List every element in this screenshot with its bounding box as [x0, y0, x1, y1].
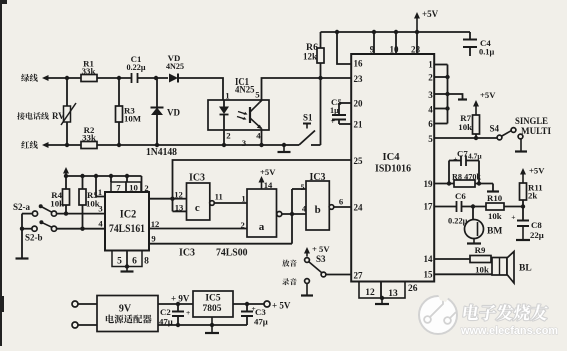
ground S4 multi	[520, 139, 522, 152]
power +5V arrow top	[416, 16, 418, 32]
svg-text:21: 21	[354, 120, 364, 130]
svg-text:+: +	[186, 308, 190, 317]
resistor R11 2k	[520, 183, 527, 200]
power +5V top rail	[321, 31, 471, 33]
wire IC3a out feedback	[282, 213, 306, 215]
svg-text:C4: C4	[480, 38, 491, 48]
pin 7 10 boxes IC2 top	[110, 176, 112, 182]
svg-text:S1: S1	[303, 113, 313, 123]
svg-text:+ 5V: + 5V	[312, 244, 330, 254]
svg-text:2: 2	[428, 73, 433, 83]
svg-text:10k: 10k	[475, 265, 489, 275]
pin 5 6 boxes IC2 bottom	[112, 251, 127, 267]
svg-text:10k: 10k	[458, 122, 472, 132]
svg-text:+: +	[511, 213, 515, 222]
svg-text:8: 8	[144, 257, 149, 267]
svg-text:4: 4	[428, 105, 433, 115]
resistor R8 470k	[454, 180, 475, 187]
svg-text:25: 25	[354, 156, 364, 166]
svg-text:6: 6	[428, 119, 433, 129]
gate IC3a	[247, 189, 277, 237]
wire IC3c out to IC3a in1	[214, 202, 247, 204]
svg-text:+5V: +5V	[529, 166, 545, 176]
ground 7805	[211, 317, 213, 333]
svg-text:1: 1	[241, 194, 245, 204]
svg-text:S2-a: S2-a	[13, 202, 31, 212]
svg-text:22μ: 22μ	[530, 230, 544, 240]
svg-text:R10: R10	[487, 193, 503, 203]
wire bottom power rail	[158, 324, 247, 326]
wire red line arrow	[45, 144, 81, 146]
watermark text dianzifashaoyou	[463, 304, 480, 320]
svg-text:2: 2	[226, 131, 231, 141]
capacitor C7 4.7u	[448, 161, 450, 184]
svg-text:MULTI: MULTI	[521, 127, 551, 137]
resistor R3 10M	[118, 78, 120, 106]
svg-text:13: 13	[175, 203, 184, 213]
svg-text:14: 14	[264, 180, 273, 190]
wire IC4 pin25 to IC3c inputs	[173, 160, 352, 211]
svg-text:5: 5	[300, 182, 304, 192]
resistor R7 10k	[475, 134, 477, 138]
svg-text:C2: C2	[160, 307, 171, 317]
wire opto pin4	[261, 129, 263, 146]
svg-text:1: 1	[225, 91, 229, 101]
speaker BL	[492, 258, 507, 276]
svg-text:0.1μ: 0.1μ	[479, 48, 494, 57]
svg-text:S3: S3	[316, 254, 326, 264]
power +5V R11	[522, 172, 524, 183]
svg-text:12: 12	[365, 288, 375, 298]
wire pin17 row	[434, 206, 456, 208]
svg-text:BL: BL	[519, 264, 532, 274]
capacitor C4 0.1u	[469, 32, 471, 39]
power +5V IC3a pin14	[261, 180, 263, 189]
svg-text:27: 27	[354, 271, 364, 281]
svg-text:C7: C7	[457, 149, 468, 159]
wire rail to IC2 pin1	[96, 176, 105, 197]
wire pin15 row	[434, 273, 492, 275]
power adapter box 9V	[97, 296, 158, 332]
capacitor C8 22u	[522, 207, 524, 221]
wire top rail R1-C1	[97, 77, 131, 79]
svg-text:16: 16	[354, 59, 364, 69]
wire C1 to diode	[138, 77, 169, 79]
svg-text:c: c	[195, 202, 200, 214]
svg-text:9: 9	[151, 234, 155, 244]
IC U4 ISD1016	[351, 54, 434, 282]
svg-text:R9: R9	[475, 245, 486, 255]
svg-text:9V: 9V	[119, 304, 132, 315]
svg-text:19: 19	[424, 179, 434, 189]
svg-text:IC2: IC2	[120, 207, 137, 221]
ground S3 record contact	[305, 279, 310, 284]
svg-text:26: 26	[408, 284, 418, 294]
svg-text:www.elecfans.com: www.elecfans.com	[460, 325, 558, 337]
svg-text:+5V: +5V	[422, 9, 439, 19]
svg-text:1μ: 1μ	[330, 106, 339, 115]
svg-text:74LS00: 74LS00	[216, 246, 248, 258]
svg-text:12k: 12k	[303, 52, 317, 62]
svg-text:6: 6	[339, 197, 344, 207]
resistor R9 10k	[470, 256, 491, 263]
ground R8 right	[492, 184, 494, 192]
svg-text:10M: 10M	[124, 114, 142, 124]
svg-text:10k: 10k	[488, 211, 502, 221]
power +5V rail IC2	[66, 175, 142, 177]
resistor R10 10k	[486, 203, 504, 210]
svg-text:24: 24	[354, 203, 364, 213]
svg-text:9: 9	[370, 45, 375, 55]
svg-text:C8: C8	[531, 220, 542, 230]
pin 12 13 boxes IC4 bottom	[359, 282, 381, 299]
wire opto pin2	[223, 130, 225, 145]
microphone BM	[472, 207, 474, 220]
scan edge line left	[0, 0, 2, 346]
varistor RV	[17, 112, 25, 120]
svg-text:13: 13	[388, 289, 398, 299]
wire pin19 row	[434, 183, 454, 185]
svg-text:11: 11	[215, 192, 223, 202]
wire 7805 out	[233, 303, 264, 305]
svg-text:20: 20	[354, 99, 364, 109]
wire diode to opto pin1	[178, 78, 223, 100]
svg-text:4: 4	[302, 204, 307, 214]
wire IC2 pin to IC3c junction	[149, 198, 173, 200]
wire S3 to IC4 pin27	[326, 274, 351, 276]
terminal +5V out	[264, 301, 270, 307]
IC U5 7805	[193, 291, 233, 317]
svg-text:3: 3	[98, 204, 102, 214]
svg-text:4N25: 4N25	[235, 86, 255, 96]
svg-text:1: 1	[98, 187, 102, 197]
svg-text:14: 14	[424, 254, 434, 264]
IC U2 74LS161	[105, 192, 149, 251]
wire green line arrow	[45, 77, 81, 79]
wire rail to pin10	[395, 32, 397, 54]
svg-text:VD: VD	[167, 108, 180, 118]
svg-text:C3: C3	[255, 307, 266, 317]
svg-text:+5V: +5V	[260, 167, 276, 177]
wire opto pin5 to IC4 pin23	[260, 78, 352, 103]
svg-text:+5V: +5V	[480, 90, 496, 100]
svg-text:6: 6	[132, 257, 137, 267]
svg-text:IC5: IC5	[205, 294, 221, 304]
wire rail to pin9	[373, 32, 375, 54]
svg-text:5: 5	[117, 257, 122, 267]
wire rail to IC2 pin2	[141, 176, 143, 192]
wire pin5 row	[434, 137, 497, 139]
svg-text:10: 10	[390, 45, 400, 55]
svg-text:a: a	[259, 221, 265, 233]
svg-text:0.22μ: 0.22μ	[448, 217, 468, 226]
svg-text:IC3: IC3	[179, 246, 195, 258]
ground IC2 bottom	[125, 264, 129, 268]
svg-text:C6: C6	[455, 191, 466, 201]
wire pin14 row	[434, 258, 470, 260]
svg-text:+ 5V: + 5V	[272, 301, 291, 311]
svg-text:4.7μ: 4.7μ	[468, 152, 482, 161]
svg-text:+ 9V: + 9V	[171, 294, 190, 304]
svg-text:BM: BM	[487, 227, 502, 237]
wire IC3b out to IC4 pin24	[334, 206, 351, 208]
svg-text:7805: 7805	[203, 304, 222, 314]
svg-text:4N25: 4N25	[166, 61, 185, 71]
svg-text:4: 4	[256, 131, 261, 141]
svg-text:12: 12	[174, 190, 183, 200]
svg-text:47μ: 47μ	[254, 317, 268, 327]
wire bottom rail	[97, 144, 284, 146]
svg-text:1N4148: 1N4148	[146, 147, 177, 158]
ground IC4 bottom	[380, 296, 384, 300]
svg-text:17: 17	[424, 202, 434, 212]
svg-text:S4: S4	[489, 124, 499, 134]
svg-text:R8 470k: R8 470k	[452, 172, 481, 182]
svg-text:15: 15	[424, 270, 434, 280]
node green-line	[21, 74, 29, 82]
svg-text:S2-b: S2-b	[25, 233, 43, 243]
svg-text:3: 3	[242, 138, 247, 148]
wire adapter to 7805	[158, 303, 193, 305]
wire S1 up to node	[320, 78, 322, 145]
svg-text:b: b	[315, 204, 321, 216]
svg-text:4: 4	[98, 219, 103, 229]
svg-text:5: 5	[428, 134, 433, 144]
wire IC2 pin12 to IC3a in2	[149, 228, 247, 230]
svg-text:1: 1	[428, 60, 433, 70]
svg-text:12: 12	[151, 219, 160, 229]
node red-line	[21, 141, 29, 149]
watermark logo elecfans	[419, 296, 457, 334]
svg-text:IC4: IC4	[383, 152, 401, 163]
svg-text:2k: 2k	[528, 191, 537, 201]
capacitor C3 47u	[246, 304, 248, 311]
svg-text:28: 28	[411, 45, 421, 55]
svg-text:IC3: IC3	[189, 173, 205, 184]
ground below opto	[282, 143, 286, 147]
svg-text:0.22μ: 0.22μ	[127, 63, 146, 72]
svg-text:3: 3	[428, 90, 433, 100]
svg-text:ISD1016: ISD1016	[375, 164, 411, 175]
terminal input circles	[72, 301, 78, 307]
svg-text:74LS161: 74LS161	[109, 223, 145, 235]
capacitor C6 0.22u	[456, 201, 458, 212]
diode VD 1N4148	[156, 78, 158, 107]
svg-text:+: +	[331, 117, 336, 126]
wire pins 1-6 bus	[434, 64, 447, 66]
ground pins bus	[448, 94, 463, 99]
svg-text:5: 5	[255, 90, 260, 100]
wire S2 common to ground	[21, 214, 23, 258]
wire rail to IC4 pin16	[337, 32, 351, 64]
svg-text:23: 23	[354, 74, 364, 84]
svg-text:SINGLE: SINGLE	[515, 117, 548, 127]
wire rail to pin28	[416, 32, 418, 54]
